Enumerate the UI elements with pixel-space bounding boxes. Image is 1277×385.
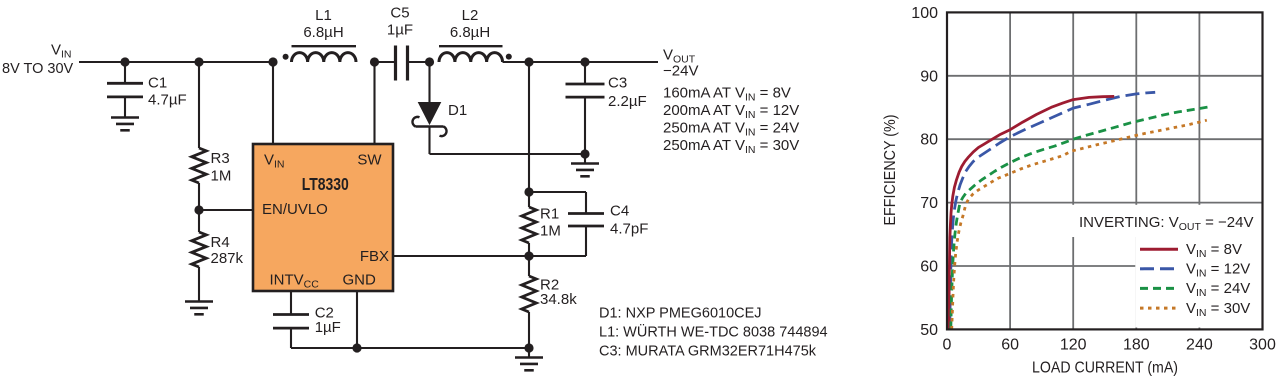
- junction node C1: [120, 57, 129, 66]
- svg-text:C3: C3: [608, 74, 627, 91]
- svg-text:D1: NXP PMEG6010CEJ: D1: NXP PMEG6010CEJ: [599, 306, 762, 322]
- chart border: [947, 12, 1263, 329]
- legend entry VIN=8V: [1140, 241, 1242, 260]
- svg-text:90: 90: [920, 68, 938, 85]
- svg-text:INVERTING: VOUT = −24V: INVERTING: VOUT = −24V: [1079, 214, 1253, 233]
- svg-text:1M: 1M: [540, 222, 561, 239]
- legend entry VIN=30V: [1140, 300, 1250, 319]
- junction node R2 bottom: [524, 343, 533, 352]
- svg-text:VIN: VIN: [51, 42, 72, 61]
- svg-text:100: 100: [911, 5, 938, 22]
- resistor R1 1M: [522, 192, 561, 256]
- svg-text:34.8k: 34.8k: [540, 291, 577, 308]
- wire INTVCC pin: [290, 291, 292, 314]
- svg-text:160mA AT VIN = 8V: 160mA AT VIN = 8V: [663, 85, 791, 104]
- svg-text:C1: C1: [148, 74, 167, 91]
- legend entry VIN=12V: [1140, 261, 1250, 280]
- capacitor C3 2.2uF: [566, 62, 647, 154]
- net label VIN input: [2, 42, 74, 78]
- curve VIN=30V orange dotted: [952, 120, 1207, 329]
- svg-text:70: 70: [920, 195, 938, 212]
- svg-text:FBX: FBX: [360, 248, 389, 265]
- chart x tick labels: [943, 337, 1276, 354]
- svg-text:2.2µF: 2.2µF: [608, 93, 647, 110]
- inductor L1 6.8uH: [283, 7, 356, 62]
- svg-text:R3: R3: [211, 150, 230, 167]
- junction node GND pin: [352, 343, 361, 352]
- svg-text:VIN = 30V: VIN = 30V: [1186, 300, 1250, 319]
- junction node SW/L1/C5: [370, 57, 379, 66]
- inductor L2 6.8uH: [439, 7, 529, 62]
- svg-text:60: 60: [1001, 337, 1019, 354]
- capacitor C2 1uF: [273, 304, 341, 348]
- svg-text:1µF: 1µF: [387, 22, 413, 39]
- svg-text:50: 50: [920, 322, 938, 339]
- svg-text:C5: C5: [390, 5, 409, 22]
- junction node R3: [194, 57, 203, 66]
- svg-text:287k: 287k: [211, 250, 244, 267]
- legend entry VIN=24V: [1140, 280, 1250, 299]
- svg-text:80: 80: [920, 132, 938, 149]
- ground bottom rail: [515, 348, 543, 370]
- svg-text:L1: L1: [315, 7, 332, 24]
- svg-text:6.8µH: 6.8µH: [303, 24, 343, 41]
- svg-text:VIN = 12V: VIN = 12V: [1186, 261, 1250, 280]
- svg-text:VIN = 8V: VIN = 8V: [1186, 241, 1242, 260]
- svg-text:C4: C4: [610, 202, 629, 219]
- IC U1 LT8330: [253, 144, 393, 291]
- svg-text:180: 180: [1123, 337, 1150, 354]
- capacitor C4 4.7pF: [529, 192, 648, 256]
- svg-text:D1: D1: [448, 102, 467, 119]
- svg-text:120: 120: [1060, 337, 1087, 354]
- svg-text:1µF: 1µF: [315, 319, 341, 336]
- junction node L2/VOUT rail: [524, 57, 533, 66]
- wire main input rail: [79, 61, 273, 63]
- wire GND pin: [356, 291, 358, 348]
- curve VIN=8V red: [949, 96, 1114, 329]
- wire SW pin: [373, 62, 375, 144]
- chart gridlines: [947, 12, 1263, 329]
- junction node VIN pin: [268, 57, 277, 66]
- junction node R3/R4/EN: [194, 205, 203, 214]
- svg-text:GND: GND: [343, 272, 377, 289]
- junction node R1/R2/FBX: [524, 251, 533, 260]
- notes component list: [599, 306, 828, 360]
- capacitor C1 4.7uF: [107, 62, 187, 118]
- junction node C3 top: [580, 57, 589, 66]
- wire D1 to ground node: [430, 153, 586, 155]
- svg-text:4.7µF: 4.7µF: [148, 91, 187, 108]
- ground below C3: [571, 154, 599, 176]
- wire bottom ground rail: [291, 347, 529, 349]
- svg-text:R1: R1: [540, 206, 559, 223]
- wire EN/UVLO: [199, 209, 253, 211]
- svg-text:200mA AT VIN = 12V: 200mA AT VIN = 12V: [663, 102, 799, 121]
- capacitor C5 1uF: [375, 5, 430, 81]
- ground below C1: [111, 118, 139, 131]
- wire FBX: [393, 255, 529, 257]
- svg-text:250mA AT VIN = 24V: 250mA AT VIN = 24V: [663, 120, 799, 139]
- resistor R3 1M: [192, 62, 232, 210]
- chart y tick labels: [911, 5, 938, 339]
- svg-text:LOAD CURRENT (mA): LOAD CURRENT (mA): [1032, 360, 1178, 377]
- svg-text:EFFICIENCY (%): EFFICIENCY (%): [882, 115, 899, 226]
- wire VIN pin: [272, 62, 274, 144]
- svg-text:L1: WÜRTH WE-TDC 8038 744894: L1: WÜRTH WE-TDC 8038 744894: [599, 323, 828, 341]
- junction node C3/D1 ground: [580, 149, 589, 158]
- legend box background title band: [1064, 205, 1262, 237]
- svg-text:SW: SW: [357, 151, 382, 168]
- svg-text:240: 240: [1186, 337, 1213, 354]
- svg-text:60: 60: [920, 259, 938, 276]
- svg-text:8V TO 30V: 8V TO 30V: [2, 61, 74, 77]
- svg-text:LT8330: LT8330: [302, 174, 349, 194]
- resistor R4 287k: [192, 210, 244, 302]
- legend box background rows band: [1135, 237, 1261, 328]
- svg-text:−24V: −24V: [663, 63, 698, 80]
- svg-text:250mA AT VIN = 30V: 250mA AT VIN = 30V: [663, 137, 799, 156]
- svg-text:R4: R4: [211, 234, 230, 251]
- curve VIN=12V blue dashed: [950, 92, 1155, 329]
- ground below R4: [185, 302, 213, 315]
- svg-text:VIN = 24V: VIN = 24V: [1186, 280, 1250, 299]
- resistor R2 34.8k: [522, 256, 577, 348]
- svg-text:1M: 1M: [211, 168, 232, 185]
- svg-text:L2: L2: [462, 7, 479, 24]
- junction node R1/C4 top: [524, 187, 533, 196]
- svg-text:6.8µH: 6.8µH: [450, 24, 490, 41]
- svg-text:EN/UVLO: EN/UVLO: [262, 201, 328, 218]
- curve VIN=24V green dashed: [951, 107, 1209, 330]
- svg-text:0: 0: [943, 337, 952, 354]
- wire output rail down: [528, 62, 530, 192]
- svg-text:300: 300: [1249, 337, 1276, 354]
- svg-text:4.7pF: 4.7pF: [610, 221, 648, 238]
- wire output top: [529, 61, 658, 63]
- junction node C5/D1: [425, 57, 434, 66]
- svg-text:C3: MURATA GRM32ER71H475k: C3: MURATA GRM32ER71H475k: [599, 344, 817, 360]
- diode D1 schottky: [412, 62, 467, 154]
- net label VOUT output: [663, 46, 799, 156]
